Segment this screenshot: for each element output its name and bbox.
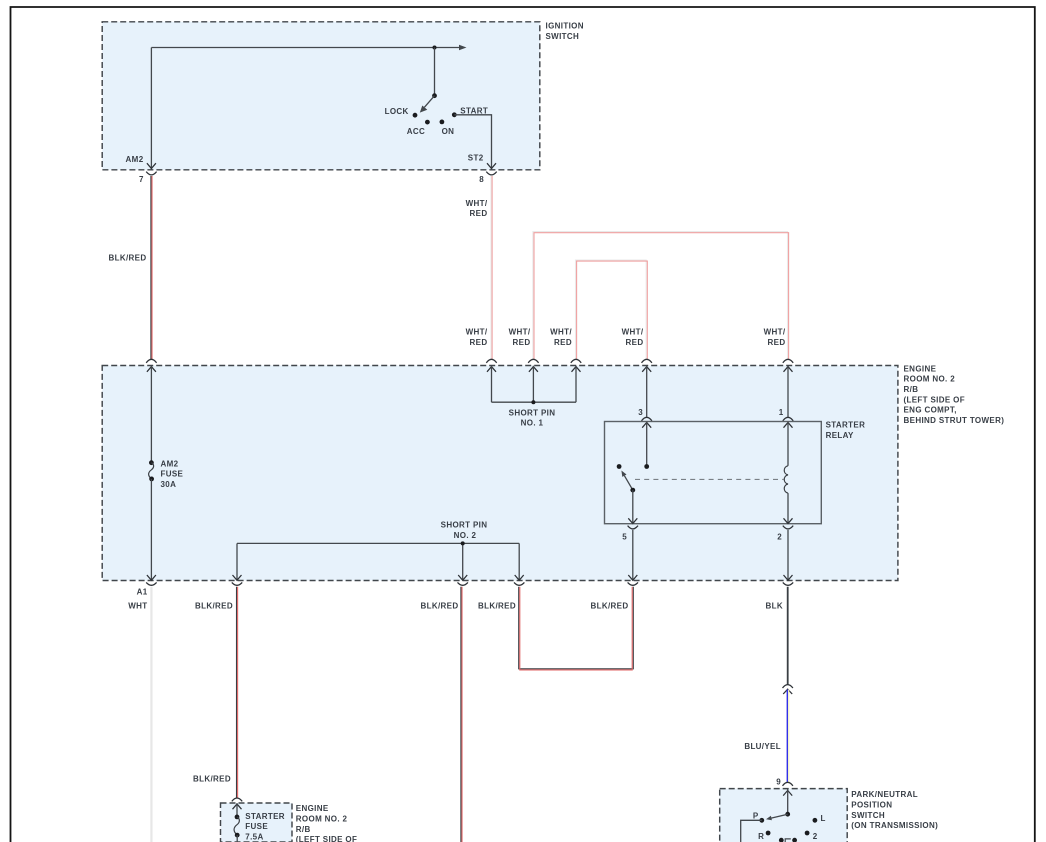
node park pivot: [785, 812, 790, 817]
svg-text:ST2: ST2: [468, 154, 484, 163]
AM2 fuse: [149, 459, 184, 489]
svg-text:1: 1: [779, 408, 784, 417]
short pin no.2 bus: [233, 543, 524, 580]
AM2 fuse wire lower: [147, 479, 156, 580]
label starter relay: [826, 421, 866, 440]
svg-text:2: 2: [777, 532, 782, 541]
contact LOCK: [385, 107, 418, 118]
park/neutral position switch box: [720, 789, 848, 842]
label engine room no.2 R/B: [904, 364, 1005, 425]
starter relay box: [605, 422, 822, 524]
wire BLU/YEL: [744, 690, 788, 782]
svg-text:WHT/: WHT/: [466, 199, 488, 208]
svg-text:SHORT PIN: SHORT PIN: [509, 408, 556, 417]
wire BLK relay pin2 down: [787, 587, 789, 685]
svg-text:WHT/: WHT/: [550, 328, 572, 337]
svg-text:5: 5: [622, 532, 627, 541]
svg-text:(ON TRANSMISSION): (ON TRANSMISSION): [851, 821, 938, 830]
wire ignition feed horizontal with arrow: [151, 45, 466, 51]
connector engine top x491: [486, 359, 496, 372]
label WHT/RED above pin (col3): [550, 328, 572, 347]
contact ON: [440, 120, 455, 137]
svg-text:ENGINE: ENGINE: [296, 804, 329, 813]
AM2 fuse wire upper: [150, 366, 152, 461]
svg-text:RED: RED: [554, 338, 572, 347]
wire relay pin2 to engine bottom: [784, 530, 793, 581]
svg-text:AM2: AM2: [161, 459, 179, 468]
connector engine bottom x632: [590, 582, 638, 610]
connector relay pin1: [783, 417, 793, 427]
svg-text:FUSE: FUSE: [161, 470, 184, 479]
wire switch rotor stem: [434, 48, 436, 96]
svg-text:P: P: [753, 811, 759, 820]
connector engine bottom x519: [478, 582, 524, 610]
park switch blade toward P: [766, 814, 788, 820]
svg-text:BLK: BLK: [766, 601, 784, 610]
node relay pin3 contact: [644, 464, 649, 469]
svg-text:RELAY: RELAY: [826, 431, 854, 440]
ignition switch box: [102, 22, 540, 170]
svg-text:(LEFT SIDE OF: (LEFT SIDE OF: [296, 835, 357, 842]
svg-text:LOCK: LOCK: [385, 107, 409, 116]
svg-text:RED: RED: [626, 338, 644, 347]
svg-text:FUSE: FUSE: [245, 822, 268, 831]
svg-text:RED: RED: [470, 338, 488, 347]
wire BLK/RED U loop: [519, 587, 634, 670]
svg-text:STARTER: STARTER: [245, 812, 285, 821]
wire P contact down: [741, 820, 762, 842]
svg-text:SWITCH: SWITCH: [851, 811, 885, 820]
svg-text:WHT/: WHT/: [466, 328, 488, 337]
svg-text:IGNITION: IGNITION: [546, 22, 584, 31]
node short pin no.1: [531, 400, 535, 404]
contact R: [758, 831, 770, 841]
svg-text:2: 2: [813, 832, 818, 841]
svg-text:R/B: R/B: [296, 825, 311, 834]
svg-text:BLK/RED: BLK/RED: [478, 601, 516, 610]
contact ACC: [407, 120, 430, 136]
svg-text:7: 7: [139, 175, 144, 184]
svg-text:A1: A1: [137, 588, 148, 597]
svg-text:RED: RED: [768, 338, 786, 347]
wire relay pin5 to engine bottom: [628, 530, 637, 581]
connector engine bottom x462: [420, 582, 467, 610]
svg-text:RED: RED: [470, 209, 488, 218]
relay dashed mechanical link: [635, 478, 784, 480]
connector engine top x576: [571, 359, 581, 372]
connector park/neutral pin9: [783, 782, 793, 795]
svg-text:BLU/YEL: BLU/YEL: [744, 742, 781, 751]
svg-text:BLK/RED: BLK/RED: [108, 253, 146, 262]
contact START: [452, 107, 488, 118]
svg-text:PARK/NEUTRAL: PARK/NEUTRAL: [851, 790, 918, 799]
svg-text:R/B: R/B: [904, 385, 919, 394]
svg-text:9: 9: [776, 777, 781, 786]
svg-text:STARTER: STARTER: [826, 421, 866, 430]
svg-text:NO. 1: NO. 1: [521, 419, 544, 428]
wire BLK/RED long down: [461, 587, 462, 842]
svg-text:BLK/RED: BLK/RED: [195, 601, 233, 610]
svg-text:WHT/: WHT/: [509, 328, 531, 337]
label short pin no.1: [509, 408, 556, 427]
starter fuse box: [221, 803, 293, 842]
svg-text:BLK/RED: BLK/RED: [193, 775, 231, 784]
svg-text:RED: RED: [513, 338, 531, 347]
label short pin no.2: [441, 521, 488, 540]
connector pin 8: [479, 172, 497, 184]
connector relay pin5: [622, 526, 638, 542]
relay pin3 wire inside: [646, 422, 648, 465]
relay fixed contact: [617, 464, 622, 469]
relay pin5 wire inside: [628, 490, 637, 523]
wire START to ST2: [454, 115, 496, 170]
connector engine top x533: [528, 359, 538, 372]
connector relay pin3: [642, 417, 652, 427]
connector engine bottom A1: [128, 582, 156, 610]
contact P: [753, 811, 764, 822]
label WHT/RED above pin (col1): [466, 328, 488, 347]
label WHT/RED above pin (col2): [509, 328, 531, 347]
relay blade: [621, 471, 635, 493]
svg-text:SWITCH: SWITCH: [546, 32, 580, 41]
svg-text:NO. 2: NO. 2: [454, 531, 477, 540]
svg-text:AM2: AM2: [126, 155, 144, 164]
switch blade toward LOCK: [420, 96, 435, 113]
connector relay pin2: [777, 526, 793, 542]
label park/neutral position switch: [851, 790, 938, 830]
connector starter fuse top: [232, 798, 242, 801]
connector engine bottom x788: [766, 582, 794, 610]
svg-text:WHT: WHT: [128, 601, 147, 610]
svg-text:ACC: ACC: [407, 127, 425, 136]
starter fuse arrow in: [233, 803, 242, 815]
svg-text:BLK/RED: BLK/RED: [420, 601, 458, 610]
svg-text:(LEFT SIDE OF: (LEFT SIDE OF: [904, 395, 965, 404]
svg-text:POSITION: POSITION: [851, 801, 892, 810]
svg-text:ROOM NO. 2: ROOM NO. 2: [904, 375, 956, 384]
connector engine top x646: [642, 359, 652, 372]
connector engine top x788: [783, 359, 793, 372]
short pin no.1 wires: [492, 366, 577, 402]
contact N terminals bottom: [779, 838, 797, 842]
svg-text:ENGINE: ENGINE: [904, 364, 937, 373]
connector engine top x151: [146, 359, 156, 372]
node junction on feed wire: [433, 46, 437, 50]
connector engine bottom x237: [195, 582, 242, 610]
svg-text:WHT/: WHT/: [622, 328, 644, 337]
svg-text:BEHIND STRUT TOWER): BEHIND STRUT TOWER): [904, 416, 1005, 425]
park switch stem wire: [787, 789, 789, 812]
svg-text:ROOM NO. 2: ROOM NO. 2: [296, 815, 348, 824]
node short pin no.2: [461, 541, 465, 545]
svg-text:BLK/RED: BLK/RED: [590, 601, 628, 610]
label WHT/RED above pin (col5): [764, 328, 786, 347]
svg-text:R: R: [758, 832, 764, 841]
contact 2: [805, 831, 818, 841]
wire engine top to relay pin3: [638, 366, 647, 417]
connector pin 7: [139, 172, 157, 184]
svg-text:SHORT PIN: SHORT PIN: [441, 521, 488, 530]
relay coil: [784, 422, 793, 524]
wire BLK/RED to starter fuse: [193, 587, 238, 798]
svg-text:ENG COMPT,: ENG COMPT,: [904, 406, 957, 415]
wire BLK/RED pin7 to engine box: [108, 176, 152, 359]
svg-text:3: 3: [638, 408, 643, 417]
svg-text:7.5A: 7.5A: [245, 833, 263, 842]
wire WHT A1 down: [151, 587, 152, 842]
wire WHT/RED jumper outer: [533, 232, 789, 360]
wire WHT/RED pin8 to engine box: [466, 176, 492, 359]
svg-text:ON: ON: [442, 127, 455, 136]
svg-text:L: L: [821, 814, 826, 823]
svg-text:30A: 30A: [161, 480, 177, 489]
wire AM2 vertical inside ignition box: [147, 48, 156, 170]
contact L: [813, 814, 826, 823]
label starter fuse: [245, 812, 285, 842]
label WHT/RED above pin (col4): [622, 328, 644, 347]
starter fuse: [234, 815, 240, 842]
label engine room no.2 (lower): [296, 804, 357, 842]
wire WHT/RED jumper inner: [576, 260, 648, 359]
node rotor pivot: [432, 93, 437, 98]
wire engine top to relay pin1: [779, 366, 788, 417]
engine room no.2 R/B box: [102, 366, 898, 581]
svg-text:WHT/: WHT/: [764, 328, 786, 337]
svg-text:8: 8: [479, 175, 484, 184]
inline connector BLK to BLU/YEL: [783, 685, 793, 694]
label IGNITION SWITCH: [546, 22, 584, 41]
